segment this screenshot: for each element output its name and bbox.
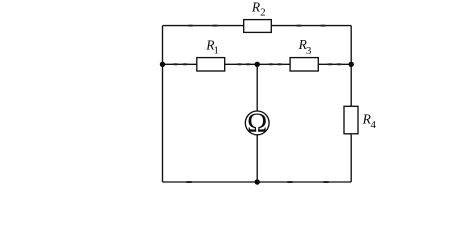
svg-text:3: 3 [306, 45, 311, 57]
svg-text:Ω: Ω [247, 107, 267, 137]
svg-text:4: 4 [371, 119, 377, 131]
svg-text:1: 1 [214, 45, 219, 57]
svg-text:2: 2 [260, 7, 265, 19]
